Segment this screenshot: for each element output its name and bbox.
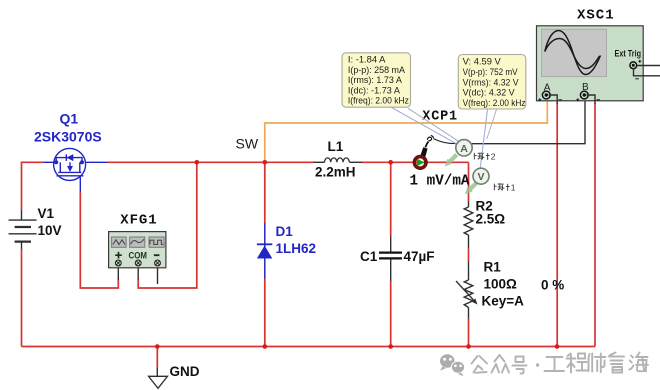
svg-text:XCP1: XCP1 xyxy=(422,110,458,125)
svg-text:R1: R1 xyxy=(484,260,502,275)
svg-text:SW: SW xyxy=(236,136,259,152)
svg-text:V(freq): 2.00 kHz: V(freq): 2.00 kHz xyxy=(463,97,526,108)
svg-text:1 mV/mA: 1 mV/mA xyxy=(410,174,470,190)
svg-text:2.2mH: 2.2mH xyxy=(315,165,356,180)
svg-text:1: 1 xyxy=(511,182,516,192)
svg-text:2.5Ω: 2.5Ω xyxy=(476,212,506,227)
svg-text:1LH62: 1LH62 xyxy=(276,241,317,256)
svg-text:47µF: 47µF xyxy=(404,249,435,264)
svg-text:I(freq): 2.00 kHz: I(freq): 2.00 kHz xyxy=(348,95,409,106)
svg-text:D1: D1 xyxy=(276,224,294,239)
svg-text:XFG1: XFG1 xyxy=(120,212,157,228)
svg-text:Q1: Q1 xyxy=(60,111,79,127)
svg-text:C1: C1 xyxy=(360,249,378,264)
svg-text:V: V xyxy=(477,171,484,183)
svg-text:V: 4.59 V: V: 4.59 V xyxy=(463,56,502,67)
svg-text:2SK3070S: 2SK3070S xyxy=(34,129,102,145)
svg-text:B: B xyxy=(582,82,589,93)
svg-text:A: A xyxy=(544,82,551,93)
svg-text:L1: L1 xyxy=(328,139,344,154)
svg-text:100Ω: 100Ω xyxy=(484,276,518,291)
svg-text:0 %: 0 % xyxy=(541,278,564,293)
svg-text:Ext Trig: Ext Trig xyxy=(615,49,642,59)
svg-text:XSC1: XSC1 xyxy=(577,7,615,23)
svg-text:V1: V1 xyxy=(38,206,55,221)
svg-text:10V: 10V xyxy=(38,223,62,238)
svg-text:Key=A: Key=A xyxy=(482,293,525,308)
svg-text:GND: GND xyxy=(170,364,200,379)
svg-text:2: 2 xyxy=(491,152,496,162)
svg-text:A: A xyxy=(460,143,468,155)
